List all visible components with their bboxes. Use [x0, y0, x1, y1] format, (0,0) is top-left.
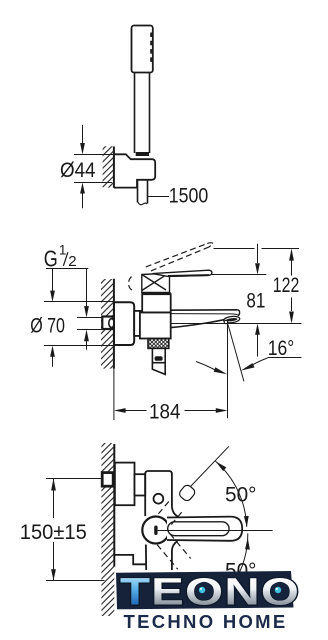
- lever pivot circle: [142, 517, 169, 544]
- dome with X: [142, 273, 170, 292]
- svg-text:TECHNO HOME: TECHNO HOME: [124, 611, 288, 632]
- centerline: [110, 323, 302, 325]
- handle end dark band: [136, 152, 149, 156]
- logo O lenses: [195, 582, 289, 600]
- G1/2 nipple (bottom view): [102, 473, 113, 487]
- G1/2 underline and leaders: [46, 269, 88, 307]
- lever handle raised (dashed): [129, 243, 214, 291]
- spout: [171, 310, 239, 328]
- label 1500 with leader: [148, 196, 169, 198]
- dimension 122 top extension line: [214, 248, 255, 250]
- body neck (bottom view): [135, 474, 146, 495]
- hand shower head: [132, 26, 153, 73]
- logo dark box: [116, 571, 294, 609]
- dashed lever lowered (plan, -50): [157, 534, 190, 569]
- svg-text:Ø 70: Ø 70: [30, 314, 65, 337]
- nipple extension lines: [77, 317, 102, 319]
- dimension 81 arrows: [257, 244, 259, 263]
- svg-text:81: 81: [246, 289, 265, 312]
- knurled nut: [148, 339, 169, 349]
- centerline (plan): [156, 530, 273, 532]
- wall line (bottom view): [113, 444, 115, 567]
- G1/2 nipple (middle view): [102, 317, 112, 330]
- spout aerator foot: [223, 316, 240, 324]
- lever tip extension line (81): [211, 274, 266, 276]
- lever bar inner outline: [168, 522, 229, 536]
- svg-text:50°: 50°: [225, 484, 257, 507]
- dimension 122: [291, 261, 293, 276]
- connector slot: [155, 356, 163, 361]
- svg-text:2: 2: [68, 253, 76, 270]
- cartridge housing: [142, 294, 171, 312]
- svg-text:150±15: 150±15: [20, 521, 87, 544]
- wall hatching (middle view): [101, 279, 114, 369]
- cartridge screw circle: [154, 494, 164, 504]
- flange extension lines: [44, 301, 114, 303]
- hand shower handle: [135, 73, 150, 154]
- angle reference vertical: [227, 324, 229, 419]
- logo TEONO: [120, 571, 300, 613]
- 16 deg label underline: [268, 357, 302, 359]
- svg-text:184: 184: [149, 400, 181, 423]
- angle 16 deg line: [228, 325, 244, 382]
- 50 deg construction line: [191, 446, 229, 486]
- body bottom-left step: [114, 555, 146, 564]
- spout tip cap: [237, 310, 239, 316]
- svg-text:G: G: [44, 245, 58, 271]
- svg-text:1: 1: [59, 242, 67, 257]
- wall line (middle view): [113, 279, 115, 369]
- lower arrows of G1/2 and Ø70: [86, 341, 88, 350]
- escutcheon flange (bottom view): [115, 463, 135, 506]
- valve body block: [140, 312, 171, 338]
- dimension 150±15: [46, 479, 105, 581]
- shower outlet connector: [152, 348, 165, 362]
- svg-text:T: T: [120, 571, 151, 613]
- svg-text:1500: 1500: [169, 185, 209, 208]
- dimension 184: [113, 369, 115, 420]
- wall line (top view): [113, 147, 115, 188]
- svg-text:Ø44: Ø44: [60, 159, 96, 182]
- body (bottom view): [145, 471, 177, 570]
- body neck: [134, 311, 141, 336]
- shower holder: [114, 154, 155, 187]
- connector angled break: [152, 363, 165, 375]
- 16 deg arc left with arrow: [196, 362, 217, 371]
- 50 deg arc upper: [216, 461, 247, 527]
- 50 deg arc lower: [233, 534, 248, 585]
- dimension Ø44: [74, 125, 114, 208]
- nipple end ellipse: [109, 319, 114, 328]
- lever handle (solid, horizontal): [153, 270, 212, 276]
- wall hatching (bottom view): [101, 443, 114, 616]
- shower hose: [138, 180, 148, 205]
- lever bar (plan): [167, 517, 242, 541]
- wall hatching (top view): [103, 146, 114, 187]
- svg-text:16°: 16°: [268, 337, 295, 360]
- 16 deg leader with arrow: [252, 358, 268, 366]
- svg-text:122: 122: [273, 274, 300, 297]
- dashed lever raised (plan, +50): [158, 482, 197, 524]
- escutcheon flange (middle view): [114, 302, 134, 345]
- pivot slot: [154, 526, 157, 536]
